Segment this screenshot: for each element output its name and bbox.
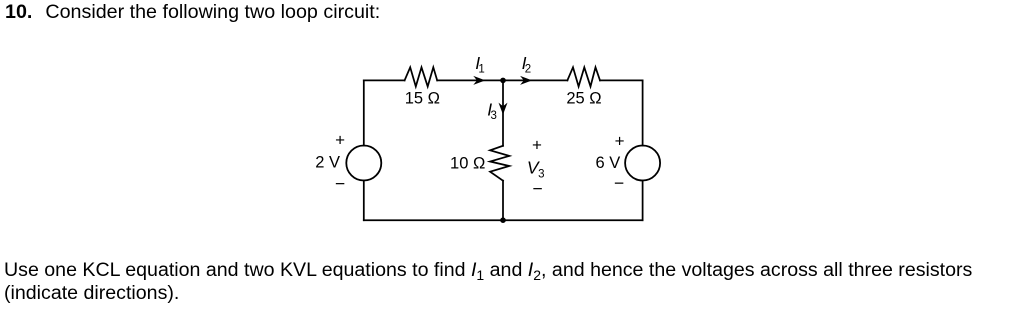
wire right-upper (642, 80, 644, 145)
wire left-lower (363, 181, 365, 221)
wire middle-lower (502, 181, 504, 221)
wire top-middle-left (437, 79, 503, 81)
svg-text:+: + (615, 131, 625, 150)
svg-text:I2: I2 (522, 53, 532, 76)
wire bottom-right (503, 219, 643, 221)
svg-text:−: − (335, 173, 345, 193)
svg-text:25 Ω: 25 Ω (566, 90, 601, 108)
node B bottom junction (500, 217, 506, 223)
svg-text:2 V: 2 V (315, 154, 340, 172)
current arrow I3 (499, 103, 508, 115)
problem heading (5, 3, 380, 22)
wire bottom-left (364, 219, 503, 221)
svg-text:+: + (335, 131, 345, 150)
svg-text:V3: V3 (527, 158, 545, 181)
resistor R1 15ohm (405, 67, 438, 86)
svg-text:I1: I1 (475, 53, 485, 76)
current arrow I1 (473, 76, 485, 85)
current arrow I2 (520, 76, 532, 85)
problem statement paragraph (4, 259, 972, 305)
wire top-middle-right (503, 79, 567, 81)
svg-text:I3: I3 (487, 99, 497, 122)
wire top-left (364, 79, 405, 81)
voltage source V2 6V (625, 146, 660, 181)
svg-text:10 Ω: 10 Ω (450, 154, 485, 172)
node A top junction (500, 78, 506, 84)
svg-text:−: − (614, 173, 624, 193)
wire left-upper (363, 80, 365, 145)
svg-text:−: − (532, 179, 542, 199)
svg-text:+: + (532, 135, 542, 154)
wire right-lower (642, 181, 644, 221)
resistor R3 10ohm (490, 146, 509, 181)
voltage source V1 2V (346, 146, 381, 181)
wire top-right (600, 79, 643, 81)
resistor R2 25ohm (567, 67, 600, 86)
wire middle-upper (502, 80, 504, 145)
svg-text:6 V: 6 V (596, 154, 621, 172)
svg-text:15 Ω: 15 Ω (405, 90, 440, 108)
